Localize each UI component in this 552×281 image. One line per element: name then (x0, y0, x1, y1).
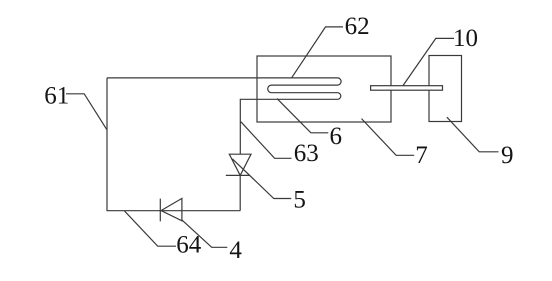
leader line 4 (182, 220, 227, 247)
heating element 62/6 (serpentine in tank) (240, 78, 341, 154)
svg-text:10: 10 (453, 25, 478, 52)
box 9 (429, 56, 462, 122)
check valve bar (159, 199, 161, 222)
svg-text:61: 61 (44, 83, 69, 110)
svg-text:64: 64 (176, 232, 202, 259)
svg-text:7: 7 (415, 142, 428, 169)
leader line 62 (292, 27, 343, 78)
leader line 10 (403, 38, 454, 86)
svg-text:63: 63 (294, 140, 319, 167)
leader line 6 (277, 99, 328, 133)
wire: valve to bottom wire (239, 175, 241, 210)
svg-text:9: 9 (501, 142, 514, 169)
valve 5 bar (226, 174, 250, 176)
leader line 63 (241, 122, 292, 159)
leader line 61 (66, 94, 107, 130)
leader line 7 (362, 119, 415, 156)
check valve 4/64 (diode on bottom wire) (161, 198, 182, 220)
svg-text:4: 4 (229, 237, 242, 264)
tank box 7 (257, 56, 391, 122)
leader line 9 (447, 117, 499, 152)
rod 10 (shaft between tank 7 and box 9) (371, 86, 443, 91)
wire: left loop 61 (top wire, left vertical, bottom wire) (107, 78, 257, 211)
valve 5 (triangle) (229, 154, 251, 175)
svg-text:62: 62 (345, 13, 370, 40)
leader line 64 (125, 211, 177, 246)
leader line 5 (232, 159, 291, 199)
svg-text:5: 5 (293, 186, 306, 213)
svg-text:6: 6 (330, 123, 343, 150)
